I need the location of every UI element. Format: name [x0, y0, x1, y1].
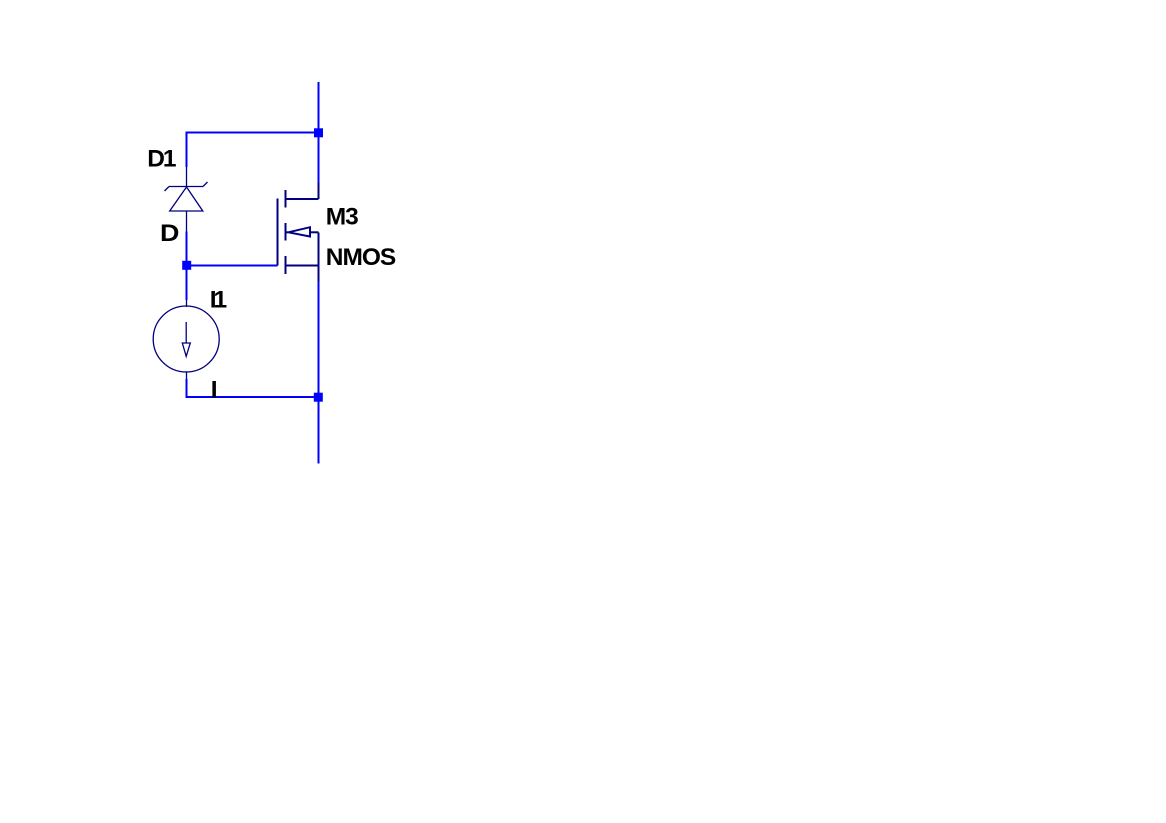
wire bottom horizontal [186, 396, 319, 398]
wire right vertical source to bottom [318, 282, 320, 464]
svg-text:D1: D1 [147, 146, 176, 173]
wire from top horizontal down to diode [186, 132, 188, 168]
zener diode D1 [165, 167, 208, 232]
svg-text:I1: I1 [210, 286, 227, 313]
wire current source bottom [186, 379, 188, 398]
wire node D to gate [187, 264, 278, 266]
svg-text:I: I [211, 377, 218, 404]
junction at node I [314, 393, 323, 402]
wire diode bottom to node D [186, 232, 188, 301]
wire top vertical [318, 82, 320, 183]
wire top horizontal [186, 132, 319, 134]
current source I1 [153, 300, 219, 379]
junction at node D [182, 261, 191, 270]
svg-text:NMOS: NMOS [326, 244, 396, 271]
svg-text:D: D [160, 220, 179, 247]
junction at top node [314, 128, 323, 137]
nmos transistor M3 [277, 183, 318, 282]
svg-text:M3: M3 [326, 204, 359, 231]
